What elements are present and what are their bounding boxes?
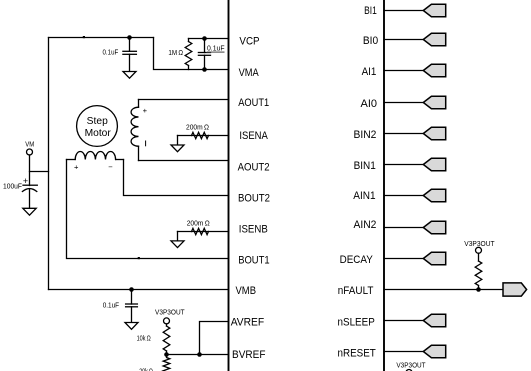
wire BOUT2 bbox=[124, 160, 229, 196]
connector tag nRESET bbox=[423, 345, 445, 357]
svg-text:BOUT2: BOUT2 bbox=[238, 193, 270, 205]
connector tag BIN1 bbox=[423, 158, 445, 170]
connector tag BI0 bbox=[423, 33, 445, 45]
wire BVREF bbox=[167, 354, 229, 356]
tick on BOUT1 wire bbox=[138, 257, 140, 259]
connector tag nSLEEP bbox=[423, 314, 445, 326]
ground (ISENB) bbox=[171, 241, 184, 248]
ground (VMB bypass) bbox=[125, 323, 138, 330]
wire ISENA ground drop bbox=[177, 136, 179, 146]
wire AIN1 bbox=[384, 195, 423, 197]
connector tag nFAULT (output) bbox=[503, 283, 527, 296]
svg-text:VCP: VCP bbox=[239, 36, 259, 48]
svg-text:Step: Step bbox=[87, 116, 108, 127]
connector tag BI1 bbox=[423, 4, 445, 16]
svg-text:V3P3OUT: V3P3OUT bbox=[396, 361, 426, 370]
connector tag BIN2 bbox=[423, 127, 445, 139]
wire AVREF bbox=[200, 322, 229, 355]
wire nRESET bbox=[384, 351, 423, 353]
svg-text:10k Ω: 10k Ω bbox=[137, 334, 151, 343]
svg-text:DECAY: DECAY bbox=[340, 254, 374, 266]
wire DECAY bbox=[384, 258, 423, 260]
svg-text:Motor: Motor bbox=[85, 128, 112, 139]
wire AI1 bbox=[384, 70, 423, 72]
svg-text:100uF: 100uF bbox=[3, 181, 22, 190]
wire VCP rail bbox=[189, 38, 229, 40]
svg-text:BIN1: BIN1 bbox=[354, 160, 376, 172]
svg-text:1M Ω: 1M Ω bbox=[168, 48, 183, 57]
node VMB bypass junction bbox=[129, 287, 134, 292]
svg-text:200m Ω: 200m Ω bbox=[187, 219, 210, 228]
svg-text:BI1: BI1 bbox=[364, 5, 377, 17]
wire ISENB ground drop bbox=[177, 232, 179, 241]
svg-text:AOUT1: AOUT1 bbox=[238, 97, 269, 109]
svg-text:nRESET: nRESET bbox=[338, 347, 376, 359]
step motor M1 bbox=[77, 106, 118, 147]
svg-text:BOUT1: BOUT1 bbox=[238, 254, 269, 266]
connector tag AI0 bbox=[423, 96, 445, 108]
inductor winding A bbox=[131, 100, 138, 161]
svg-text:nFAULT: nFAULT bbox=[338, 285, 374, 297]
svg-text:VM: VM bbox=[25, 139, 34, 148]
svg-text:+: + bbox=[143, 106, 148, 115]
svg-text:+: + bbox=[74, 162, 79, 171]
svg-text:AI0: AI0 bbox=[361, 98, 378, 110]
inductor winding B bbox=[67, 152, 124, 160]
wire ISENA bbox=[178, 135, 229, 137]
ground (100uF) bbox=[23, 208, 36, 215]
IC U1 left edge bbox=[228, 0, 230, 371]
svg-text:AI1: AI1 bbox=[362, 66, 377, 78]
wire BIN1 bbox=[384, 164, 423, 166]
wire AOUT1 bbox=[139, 99, 229, 101]
svg-text:0.1uF: 0.1uF bbox=[207, 44, 225, 53]
resistor R6 pullup bbox=[475, 253, 482, 289]
resistor R4 10k bbox=[163, 324, 170, 355]
wire VMB bbox=[49, 289, 229, 291]
svg-text:BIN2: BIN2 bbox=[354, 129, 377, 141]
capacitor 0.1uF (VM bypass) bbox=[123, 38, 136, 72]
svg-text:+: + bbox=[23, 176, 28, 186]
svg-text:V3P3OUT: V3P3OUT bbox=[464, 239, 495, 248]
svg-text:AIN1: AIN1 bbox=[353, 190, 375, 202]
svg-text:ISENA: ISENA bbox=[239, 130, 268, 142]
IC U1 right edge bbox=[383, 0, 385, 371]
terminal VM bbox=[27, 149, 33, 155]
terminal V3P3OUT (pullup) bbox=[476, 247, 482, 253]
connector tag DECAY bbox=[423, 252, 445, 264]
svg-text:VMB: VMB bbox=[236, 285, 257, 297]
connector tag AIN2 bbox=[423, 221, 445, 233]
ground (ISENA) bbox=[171, 145, 184, 152]
svg-text:BI0: BI0 bbox=[363, 35, 378, 47]
terminal V3P3OUT (vref) bbox=[164, 318, 170, 324]
svg-text:0.1uF: 0.1uF bbox=[103, 48, 119, 57]
wire VM terminal drop bbox=[29, 155, 31, 186]
wire VM tap bbox=[30, 171, 49, 173]
wire VM left vertical bbox=[48, 38, 50, 290]
node nFAULT pullup bbox=[476, 287, 481, 292]
svg-text:V3P3OUT: V3P3OUT bbox=[155, 308, 185, 317]
resistor R1 1M bbox=[185, 39, 192, 70]
svg-text:AVREF: AVREF bbox=[231, 317, 265, 329]
wire nSLEEP bbox=[384, 320, 423, 322]
capacitor 0.1uF (VMB bypass) bbox=[126, 290, 138, 323]
node vref branch bbox=[197, 352, 202, 357]
wire ISENB bbox=[178, 231, 229, 233]
wire BIN2 bbox=[384, 133, 423, 135]
resistor R3 200m (B) bbox=[192, 228, 209, 234]
node VCP cap top bbox=[202, 36, 207, 41]
wire AIN2 bbox=[384, 227, 423, 229]
tick on top rail bbox=[83, 36, 85, 38]
wire AOUT2 bbox=[139, 160, 229, 162]
svg-text:AOUT2: AOUT2 bbox=[238, 161, 270, 173]
svg-text:0.1uF: 0.1uF bbox=[103, 300, 120, 309]
svg-text:nSLEEP: nSLEEP bbox=[338, 317, 375, 329]
resistor R5 20k bbox=[163, 355, 170, 371]
ground (VM bypass) bbox=[123, 72, 136, 79]
svg-text:BVREF: BVREF bbox=[232, 349, 266, 361]
node vref divider bbox=[164, 352, 169, 357]
node VMA cap bottom bbox=[202, 67, 207, 72]
label winding A minus bbox=[145, 141, 147, 146]
wire BOUT1 bbox=[67, 160, 229, 259]
wire VM top rail bbox=[49, 37, 154, 39]
resistor R2 200m (A) bbox=[192, 132, 209, 138]
wire VMA feed bbox=[154, 38, 229, 70]
wire nFAULT bbox=[384, 289, 503, 291]
wire BI1 bbox=[384, 10, 423, 12]
svg-text:−: − bbox=[108, 162, 113, 171]
terminal V3P3OUT (bottom) bbox=[406, 370, 412, 371]
svg-text:ISENB: ISENB bbox=[239, 223, 268, 235]
node top bypass junction bbox=[127, 35, 132, 40]
capacitor C1 100uF bbox=[22, 185, 37, 208]
connector tag AI1 bbox=[423, 64, 445, 76]
wire AI0 bbox=[384, 102, 423, 104]
wire BI0 bbox=[384, 39, 423, 41]
capacitor 0.1uF (charge pump) bbox=[198, 39, 210, 70]
svg-text:200m Ω: 200m Ω bbox=[186, 122, 209, 131]
svg-text:AIN2: AIN2 bbox=[354, 219, 377, 231]
svg-text:20k Ω: 20k Ω bbox=[139, 367, 153, 371]
svg-text:VMA: VMA bbox=[239, 67, 259, 79]
connector tag AIN1 bbox=[423, 189, 445, 201]
